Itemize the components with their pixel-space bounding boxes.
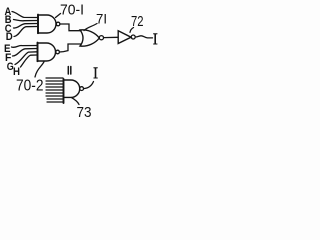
hatch inputs 73 [46,78,63,102]
leader 73 [72,98,80,105]
svg-text:70-2: 70-2 [16,78,44,95]
leader 70-2 [35,62,44,77]
svg-text:D: D [6,31,13,43]
leader 72 [130,28,134,33]
wire inverter to I [135,36,152,38]
wire E [12,45,38,47]
output label I right [154,34,156,43]
nor gate 71 [80,30,99,46]
leader 71 [84,24,97,31]
wire C [14,24,38,29]
wire A [12,12,38,18]
wire 73 output to I [84,82,94,89]
wire H [21,55,38,67]
wire nor to inverter [104,36,118,38]
bubble 72 [131,35,135,39]
svg-text:7I: 7I [96,11,107,27]
wire D [14,27,38,37]
wire G [15,52,37,65]
svg-text:73: 73 [77,104,92,120]
wire nand2 to nor [60,44,82,52]
bubble 71 [99,36,103,40]
svg-text:70-I: 70-I [60,2,84,19]
svg-text:H: H [13,66,20,78]
output label I mid [95,68,97,77]
bubble 70-1 [56,22,60,26]
inverter 72 [118,31,131,44]
bubble 73 [80,87,84,91]
bubble 70-2 [56,50,60,54]
nand gate 70-1 [38,15,56,33]
nand gate 73 [63,79,65,103]
wire nand1 to nor [60,24,81,31]
wire B [14,20,38,21]
label II [68,67,71,75]
nand gate 70-2 [38,43,56,61]
wire F [13,49,38,57]
leader 70-1 [56,14,61,18]
